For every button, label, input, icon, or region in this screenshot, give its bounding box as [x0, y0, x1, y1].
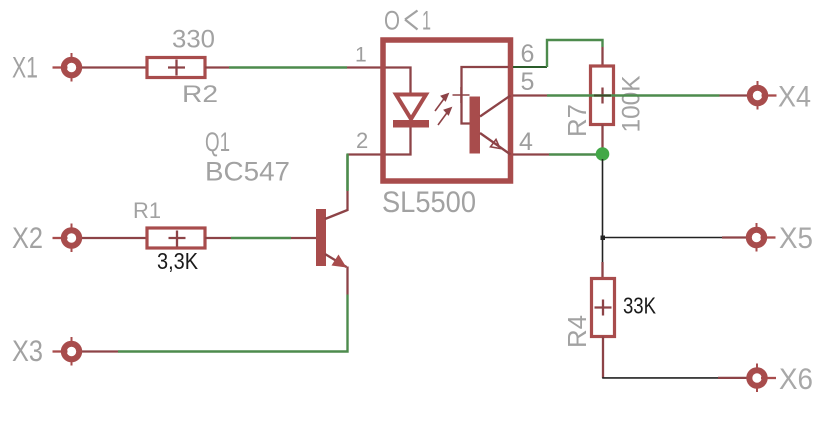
wire net pin6 up and over to R7: [547, 40, 603, 67]
svg-text:Q1: Q1: [205, 127, 230, 157]
emitter arrow outline: [491, 140, 501, 149]
resistor R1: [147, 228, 205, 248]
R7 top pin stub: [601, 47, 603, 66]
svg-text:33K: 33K: [623, 293, 657, 319]
origin cross OK1: [453, 87, 470, 103]
wire X2 to R1: [82, 237, 147, 239]
LED cathode bar: [393, 120, 429, 128]
Q1 emitter arrow: [332, 255, 347, 268]
pin 5 stub: [513, 94, 547, 96]
Q1 emitter diagonal: [325, 254, 347, 267]
svg-text:O: O: [384, 6, 400, 36]
svg-text:R4: R4: [562, 315, 592, 348]
terminal pad X4: [750, 81, 777, 110]
base wire to pin 6: [462, 67, 509, 124]
Q1 collector diagonal: [325, 210, 348, 219]
emitter wire to pin 4: [480, 133, 511, 155]
svg-text:6: 6: [521, 40, 535, 68]
Q1 emitter pin stub: [346, 267, 348, 295]
wire net emitter down to X3 line: [118, 295, 348, 352]
pin 6 stub overlapped wire: [513, 66, 547, 68]
terminal pad X2: [53, 224, 80, 253]
terminal pad X1: [53, 53, 80, 82]
svg-text:BC547: BC547: [205, 157, 290, 187]
R4 bottom pin stub: [602, 337, 604, 378]
light arrow lower: [438, 108, 452, 126]
terminal pad X3: [53, 337, 80, 366]
optocoupler OK1 box: [383, 40, 511, 181]
svg-text:X3: X3: [12, 335, 43, 368]
svg-text:SL5500: SL5500: [382, 186, 476, 219]
pin stub to X4: [720, 94, 750, 96]
wire net pin4 to junction: [549, 153, 603, 155]
terminal pad X6: [749, 364, 776, 393]
pin 2 stub of OK1: [347, 153, 381, 155]
LED cathode wire inside OK1: [386, 128, 411, 155]
collector wire to pin 5: [480, 96, 511, 117]
dark overlap at R7 origin: [594, 95, 611, 97]
svg-text:X6: X6: [779, 363, 813, 396]
terminal pad X5: [749, 223, 776, 252]
LED triangle: [396, 95, 426, 120]
junction dot: [596, 147, 610, 161]
svg-text:X1: X1: [12, 52, 38, 85]
svg-text:X4: X4: [778, 81, 811, 114]
light arrow upper: [435, 94, 449, 112]
Q1 base pin stub: [291, 237, 316, 239]
pin stub R2 right: [205, 66, 229, 68]
wire black to X6: [602, 377, 718, 379]
transistor Q1 base bar: [316, 209, 326, 266]
wire net R2 to OK1 pin1: [229, 66, 347, 68]
junction X5 tee: [601, 236, 606, 241]
svg-text:3,3K: 3,3K: [157, 248, 199, 274]
svg-text:1: 1: [355, 44, 367, 67]
wire net pin2 down to Q1 collector: [346, 155, 348, 191]
wire black junction down: [602, 159, 604, 262]
svg-text:100K: 100K: [618, 75, 646, 132]
Q1 collector pin stub: [346, 190, 348, 211]
wire net R1 to Q1 base: [231, 237, 291, 239]
svg-text:X5: X5: [779, 222, 813, 255]
resistor R2: [147, 58, 205, 78]
svg-text:R7: R7: [562, 104, 592, 137]
resistor R4: [592, 279, 615, 337]
svg-text:5: 5: [521, 68, 535, 96]
LED anode wire inside OK1: [386, 68, 411, 95]
pin 4 stub: [513, 153, 549, 155]
svg-text:2: 2: [356, 128, 368, 153]
pin stub to X6: [718, 377, 749, 379]
resistor R7: [591, 66, 614, 125]
svg-text:R2: R2: [182, 81, 218, 108]
svg-text:330: 330: [172, 26, 215, 54]
wire green pin2 net vertical: [346, 154, 348, 192]
svg-text:X2: X2: [12, 222, 43, 255]
R4 top pin stub: [601, 262, 603, 279]
svg-text:1: 1: [422, 6, 431, 36]
pin stub to X5: [722, 236, 748, 238]
pin stub R1 right: [205, 237, 231, 239]
wire net pin5 to X4 crossing R7: [547, 94, 720, 96]
svg-text:R1: R1: [133, 198, 161, 223]
wire X3 stub: [82, 350, 118, 352]
pin 1 stub of OK1: [347, 66, 381, 68]
svg-text:4: 4: [519, 128, 533, 156]
wire black to X5: [603, 237, 723, 239]
R7 bottom pin stub: [601, 125, 603, 151]
wire X1 to R2: [82, 66, 147, 68]
phototransistor base bar: [470, 97, 481, 154]
